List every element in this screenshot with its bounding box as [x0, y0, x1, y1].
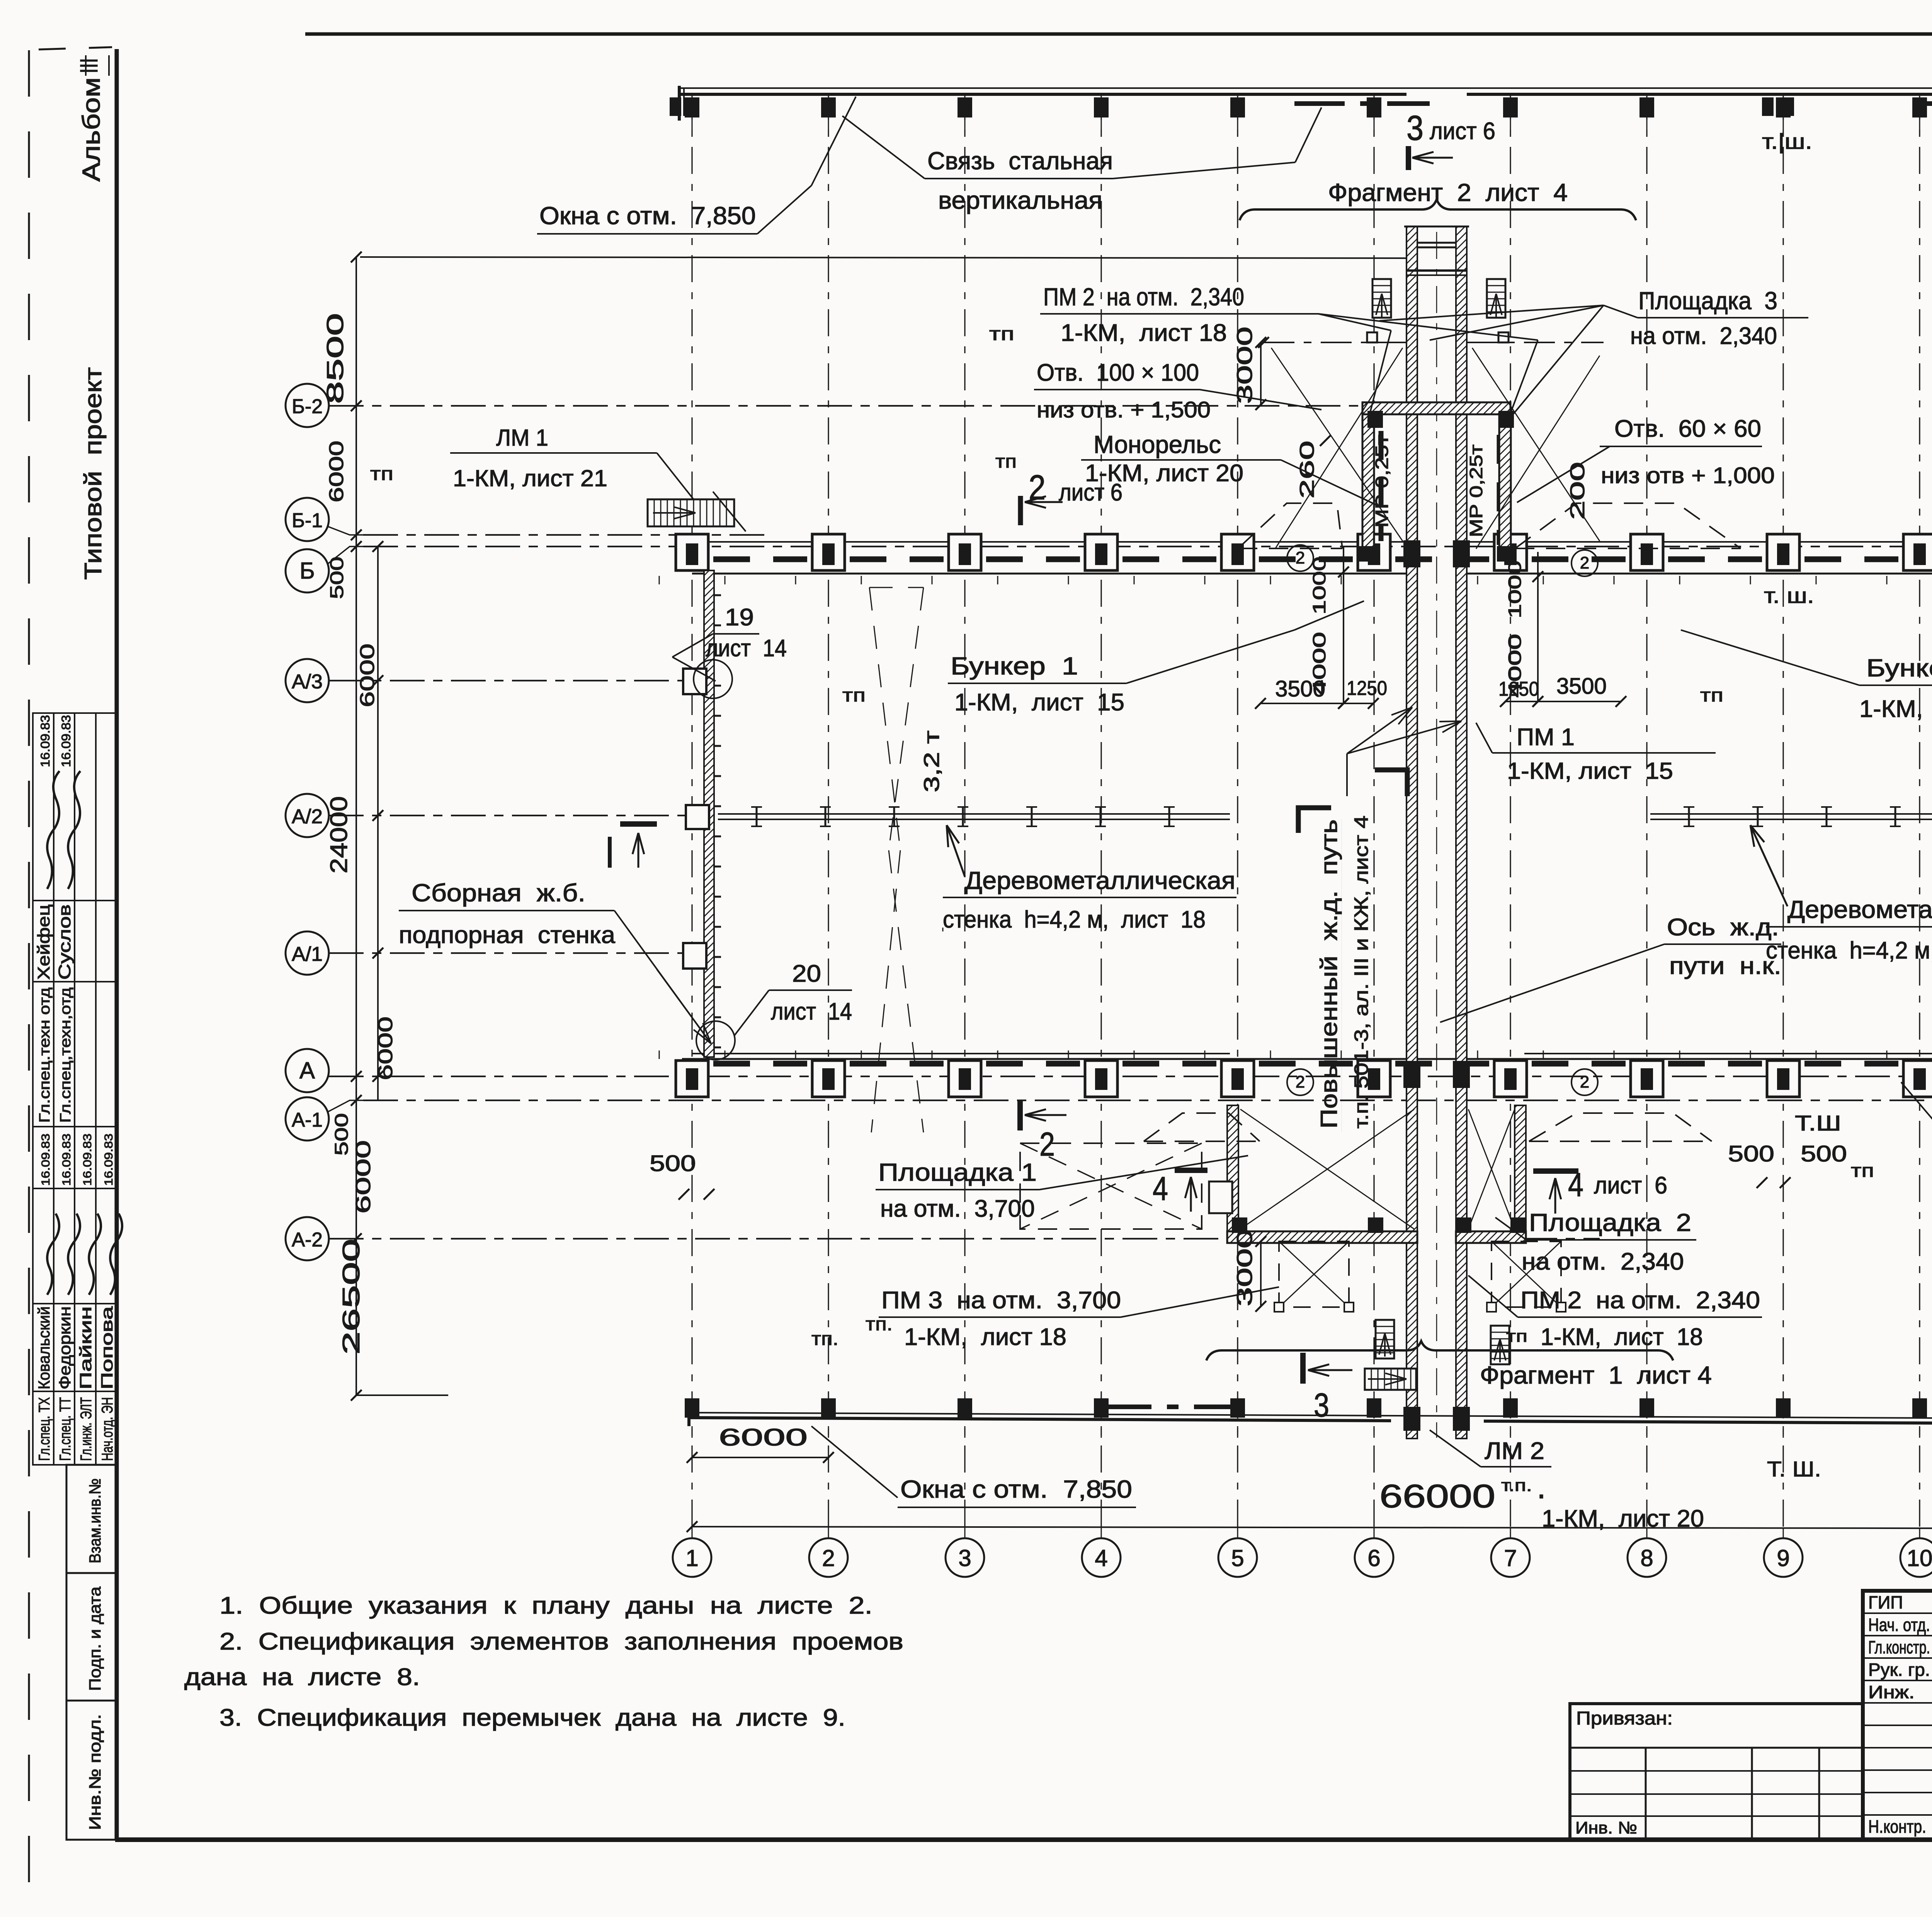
svg-text:подпорная стенка: подпорная стенка	[399, 922, 616, 948]
svg-text:Инж.: Инж.	[1868, 1682, 1915, 1702]
svg-text:2: 2	[1580, 1073, 1589, 1091]
svg-text:Подп. и дата: Подп. и дата	[86, 1586, 104, 1691]
svg-text:т.п.: т.п.	[1501, 1476, 1532, 1495]
svg-text:Суслов: Суслов	[55, 904, 74, 980]
svg-text:стенка h=4,2 м, лист 18: стенка h=4,2 м, лист 18	[943, 906, 1206, 933]
svg-text:8: 8	[1640, 1545, 1653, 1571]
svg-text:тп: тп	[989, 324, 1014, 344]
svg-text:на отм. 3,700: на отм. 3,700	[880, 1195, 1035, 1222]
svg-text:16.09.83: 16.09.83	[102, 1134, 115, 1186]
svg-text:Площадка 1: Площадка 1	[878, 1158, 1037, 1186]
svg-text:ПМ 1: ПМ 1	[1517, 724, 1575, 751]
svg-text:20: 20	[792, 960, 821, 987]
svg-text:Гл.инж. ЭЛТ: Гл.инж. ЭЛТ	[78, 1397, 95, 1461]
svg-text:6000: 6000	[719, 1424, 808, 1451]
svg-text:1-КМ, лист 20: 1-КМ, лист 20	[1542, 1505, 1704, 1532]
svg-text:26500: 26500	[338, 1239, 365, 1355]
svg-text:Типовой проект: Типовой проект	[80, 367, 107, 580]
svg-text:т.п. 501-3, ал. III и КЖ, лист: т.п. 501-3, ал. III и КЖ, лист 4	[1350, 815, 1372, 1129]
svg-text:Площадка 3: Площадка 3	[1638, 287, 1777, 315]
svg-text:6000: 6000	[325, 441, 348, 502]
svg-text:дана на листе 8.: дана на листе 8.	[184, 1664, 420, 1691]
svg-text:Н.контр.: Н.контр.	[1868, 1817, 1926, 1837]
svg-text:Альбом: Альбом	[77, 77, 105, 182]
svg-text:тп: тп	[995, 451, 1017, 472]
svg-text:стенка h=4,2 м, лист 18: стенка h=4,2 м, лист 18	[1766, 937, 1932, 964]
svg-text:Бункер 1: Бункер 1	[1866, 654, 1932, 682]
svg-text:Окна с отм. 7,850: Окна с отм. 7,850	[539, 202, 756, 230]
svg-text:1: 1	[685, 1545, 698, 1571]
svg-text:Ось ж.д.: Ось ж.д.	[1667, 914, 1779, 941]
svg-text:Попова: Попова	[98, 1306, 116, 1389]
svg-text:А/1: А/1	[292, 943, 323, 965]
svg-text:А/2: А/2	[292, 805, 323, 828]
svg-text:Гл.констр.: Гл.констр.	[1868, 1637, 1930, 1657]
svg-text:Гл.спец. ТХ: Гл.спец. ТХ	[36, 1397, 53, 1461]
svg-text:500: 500	[1728, 1141, 1774, 1166]
svg-text:на отм. 2,340: на отм. 2,340	[1630, 323, 1777, 349]
svg-text:пути н.к.: пути н.к.	[1669, 953, 1781, 979]
svg-text:ПМ 2 на отм. 2,340: ПМ 2 на отм. 2,340	[1043, 283, 1244, 311]
svg-text:2: 2	[1580, 553, 1589, 572]
svg-text:Ковальский: Ковальский	[35, 1306, 53, 1389]
svg-text:1-КМ, лист 15: 1-КМ, лист 15	[1859, 696, 1932, 722]
svg-text:16.09.83: 16.09.83	[81, 1134, 94, 1186]
svg-text:Взам.инв.№: Взам.инв.№	[86, 1478, 104, 1563]
svg-text:4: 4	[1568, 1166, 1583, 1204]
svg-text:260: 260	[1296, 441, 1318, 499]
svg-text:16.09.83: 16.09.83	[59, 715, 73, 767]
svg-text:ГИП: ГИП	[1868, 1592, 1903, 1612]
svg-text:Фрагмент 2 лист 4: Фрагмент 2 лист 4	[1328, 179, 1568, 206]
svg-text:Гл.спец. ТТ: Гл.спец. ТТ	[57, 1397, 74, 1461]
svg-text:т.|ш.: т.|ш.	[1762, 129, 1812, 153]
svg-text:3000: 3000	[1232, 327, 1257, 404]
svg-text:Федоркин: Федоркин	[56, 1306, 74, 1389]
svg-text:1250: 1250	[1498, 678, 1539, 700]
svg-text:1-КМ, лист 18: 1-КМ, лист 18	[904, 1324, 1066, 1350]
svg-text:4: 4	[1153, 1170, 1168, 1207]
svg-text:66000: 66000	[1379, 1478, 1495, 1514]
svg-text:3500: 3500	[1556, 674, 1607, 699]
svg-text:Т.Ш: Т.Ш	[1795, 1111, 1841, 1135]
svg-text:10: 10	[1907, 1545, 1932, 1571]
svg-text:Б-1: Б-1	[292, 509, 323, 532]
svg-text:16.09.83: 16.09.83	[60, 1134, 73, 1186]
svg-text:3: 3	[1406, 109, 1423, 148]
svg-text:Инв. №: Инв. №	[1575, 1818, 1637, 1837]
svg-text:24000: 24000	[326, 796, 352, 873]
svg-text:Отв. 60 × 60: Отв. 60 × 60	[1614, 415, 1761, 442]
svg-text:ЛМ 1: ЛМ 1	[496, 425, 548, 451]
svg-text:А/3: А/3	[292, 671, 323, 693]
svg-text:1000: 1000	[1505, 560, 1525, 618]
svg-text:лист 6: лист 6	[1430, 118, 1495, 145]
svg-text:16.09.83: 16.09.83	[38, 715, 52, 767]
svg-text:16.09.83: 16.09.83	[39, 1134, 52, 1186]
svg-text:тп.: тп.	[811, 1329, 838, 1349]
svg-text:тп: тп	[1851, 1161, 1874, 1181]
svg-text:500: 500	[650, 1151, 696, 1176]
svg-text:МР 0,25т: МР 0,25т	[1372, 435, 1392, 528]
svg-text:лист 6: лист 6	[1594, 1172, 1667, 1199]
svg-text:ПМ 3 на отм. 3,700: ПМ 3 на отм. 3,700	[881, 1287, 1121, 1314]
svg-text:3,2 т: 3,2 т	[919, 730, 944, 792]
svg-text:1-КМ, лист 18: 1-КМ, лист 18	[1061, 320, 1227, 346]
svg-text:лист 6: лист 6	[1059, 479, 1122, 506]
svg-text:тп: тп	[1506, 1327, 1527, 1346]
svg-text:А-1: А-1	[292, 1109, 323, 1131]
svg-text:Деревометаллическая: Деревометаллическая	[1787, 896, 1932, 923]
svg-text:6: 6	[1367, 1545, 1380, 1571]
svg-text:1. Общие указания к плану: 1. Общие указания к плану даны на листе …	[219, 1592, 872, 1619]
svg-text:7: 7	[1504, 1545, 1517, 1571]
svg-text:2: 2	[1039, 1126, 1055, 1163]
svg-text:ПМ 2 на отм. 2,340: ПМ 2 на отм. 2,340	[1520, 1287, 1760, 1314]
svg-text:3: 3	[1314, 1387, 1329, 1424]
svg-text:9: 9	[1777, 1545, 1789, 1571]
svg-text:на отм. 2,340: на отм. 2,340	[1522, 1248, 1684, 1275]
svg-text:тп: тп	[842, 685, 866, 706]
svg-text:Нач. отд.: Нач. отд.	[1868, 1615, 1930, 1635]
svg-text:Бункер 1: Бункер 1	[951, 652, 1078, 680]
svg-text:лист 14: лист 14	[771, 998, 852, 1025]
svg-text:Фрагмент 1 лист 4: Фрагмент 1 лист 4	[1480, 1361, 1712, 1389]
svg-text:Б: Б	[299, 558, 315, 584]
svg-text:2: 2	[1296, 548, 1305, 567]
svg-text:19: 19	[725, 604, 754, 631]
svg-text:тп: тп	[1700, 685, 1723, 706]
svg-text:1-КМ, лист 18: 1-КМ, лист 18	[1541, 1324, 1703, 1350]
svg-text:8500: 8500	[322, 313, 348, 404]
svg-text:Гл.спец,техн,отд: Гл.спец,техн,отд	[58, 987, 74, 1123]
svg-text:6000: 6000	[352, 1140, 375, 1214]
svg-text:МР 0,25т: МР 0,25т	[1466, 444, 1486, 537]
svg-text:Нач.отд. ЭН: Нач.отд. ЭН	[99, 1397, 116, 1461]
svg-text:ЛМ 2: ЛМ 2	[1485, 1438, 1544, 1464]
svg-text:1250: 1250	[1347, 677, 1387, 700]
svg-text:5: 5	[1231, 1545, 1244, 1571]
svg-text:низ отв. + 1,500: низ отв. + 1,500	[1037, 397, 1211, 422]
svg-text:А-2: А-2	[292, 1229, 323, 1251]
svg-text:Монорельс: Монорельс	[1094, 431, 1221, 458]
svg-text:3: 3	[958, 1545, 971, 1571]
svg-text:Деревометаллическая: Деревометаллическая	[965, 867, 1235, 894]
svg-text:1-КМ, лист 15: 1-КМ, лист 15	[954, 689, 1124, 716]
svg-text:Повышенный ж.д. путь: Повышенный ж.д. путь	[1316, 819, 1342, 1129]
svg-text:Инв.№ подл.: Инв.№ подл.	[86, 1714, 104, 1830]
svg-text:Пайкин: Пайкин	[77, 1306, 95, 1389]
svg-text:низ отв + 1,000: низ отв + 1,000	[1601, 463, 1775, 488]
svg-text:Окна с отм. 7,850: Окна с отм. 7,850	[900, 1475, 1132, 1503]
svg-text:3. Спецификация перемычек д: 3. Спецификация перемычек дана на листе …	[219, 1704, 845, 1731]
svg-text:2: 2	[822, 1545, 835, 1571]
svg-text:лист 14: лист 14	[706, 635, 787, 662]
svg-text:6000: 6000	[374, 1016, 397, 1080]
svg-text:1-КМ, лист 15: 1-КМ, лист 15	[1507, 758, 1673, 784]
svg-text:тп: тп	[370, 464, 393, 484]
svg-text:т. ш.: т. ш.	[1764, 583, 1814, 608]
svg-text:1-КМ, лист 21: 1-КМ, лист 21	[453, 465, 607, 491]
svg-text:500: 500	[332, 1113, 352, 1156]
svg-text:Гл.спец.техн отд: Гл.спец.техн отд	[37, 987, 53, 1123]
svg-text:Рук. гр.: Рук. гр.	[1868, 1660, 1930, 1680]
svg-text:Отв. 100 × 100: Отв. 100 × 100	[1037, 359, 1199, 386]
svg-text:вертикальная: вертикальная	[938, 186, 1102, 214]
svg-text:Т. Ш.: Т. Ш.	[1767, 1457, 1821, 1481]
svg-text:500: 500	[1801, 1141, 1847, 1166]
svg-text:Хейфец: Хейфец	[34, 904, 53, 980]
svg-text:Связь стальная: Связь стальная	[927, 147, 1113, 175]
svg-text:3500: 3500	[1275, 676, 1325, 701]
svg-text:Площадка 2: Площадка 2	[1529, 1209, 1691, 1236]
svg-text:4: 4	[1095, 1545, 1107, 1571]
svg-text:Привязан:: Привязан:	[1576, 1708, 1673, 1729]
svg-text:2: 2	[1296, 1073, 1305, 1091]
svg-text:6000: 6000	[356, 644, 379, 707]
svg-text:А: А	[299, 1057, 315, 1083]
svg-text:Б-2: Б-2	[292, 395, 323, 418]
svg-text:2. Спецификация элементов з: 2. Спецификация элементов заполнения про…	[219, 1628, 903, 1655]
svg-text:III: III	[75, 58, 103, 73]
svg-text:Сборная ж.б.: Сборная ж.б.	[412, 879, 585, 907]
